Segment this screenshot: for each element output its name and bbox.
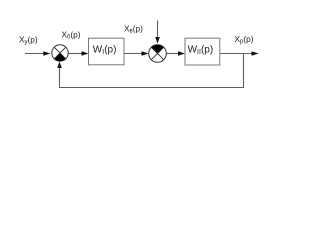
svg-text:Xв(p): Xв(p) <box>124 24 143 35</box>
svg-text:Xу(p): Xу(p) <box>19 35 38 46</box>
svg-text:WII(p): WII(p) <box>188 45 214 57</box>
svg-text:Xр(p): Xр(p) <box>235 34 254 45</box>
svg-text:WI(p): WI(p) <box>93 45 117 57</box>
svg-text:X0(p): X0(p) <box>62 30 81 41</box>
